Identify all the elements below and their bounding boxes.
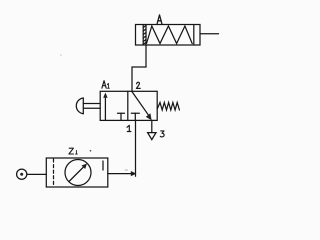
service unit Z1 right-side tick	[102, 161, 104, 170]
service unit Z1 filter dashed line	[53, 159, 55, 187]
valve A1 exhaust triangle	[148, 133, 156, 140]
wire cylinder port to valve port 2	[132, 45, 146, 92]
label 2 (port)	[136, 82, 140, 88]
valve A1 push-button actuator	[76, 98, 100, 114]
label Z1 (service unit)	[69, 148, 77, 154]
compressed-air source symbol	[17, 169, 27, 179]
wire Z1 output to junction	[108, 173, 134, 175]
cylinder A spring end plate	[193, 25, 195, 45]
label 3 (port)	[160, 131, 164, 137]
valve A1 blocked port T (left box)	[118, 113, 125, 120]
label 1 (port)	[127, 125, 131, 131]
valve A1 blocked port T (right box)	[131, 113, 139, 120]
wire source to Z1 input	[27, 173, 46, 175]
valve A1 right box diagonal flow path 2 to 3	[132, 92, 152, 121]
valve A1 return spring	[157, 103, 179, 111]
cylinder A return spring	[147, 26, 193, 44]
valve A1 box divider	[127, 91, 129, 120]
valve A1 left box flow arrow	[103, 93, 107, 120]
faint speck upper left area	[60, 54, 62, 56]
speck left of junction	[125, 169, 128, 171]
cylinder A piston rod	[200, 33, 219, 35]
cylinder A body	[136, 25, 201, 46]
service unit Z1 gauge needle	[70, 164, 88, 182]
speck near Z1 label	[90, 150, 92, 152]
label A1 (valve)	[102, 81, 110, 89]
wire valve port 1 to supply	[135, 121, 137, 177]
service unit Z1 gauge dial	[65, 160, 91, 186]
service unit Z1 body	[46, 158, 108, 187]
junction arrowhead	[131, 171, 137, 176]
valve A1 body	[100, 91, 157, 120]
label A (cylinder)	[157, 15, 162, 24]
valve A1 exhaust line port 3	[151, 120, 153, 132]
cylinder A piston	[143, 25, 146, 45]
